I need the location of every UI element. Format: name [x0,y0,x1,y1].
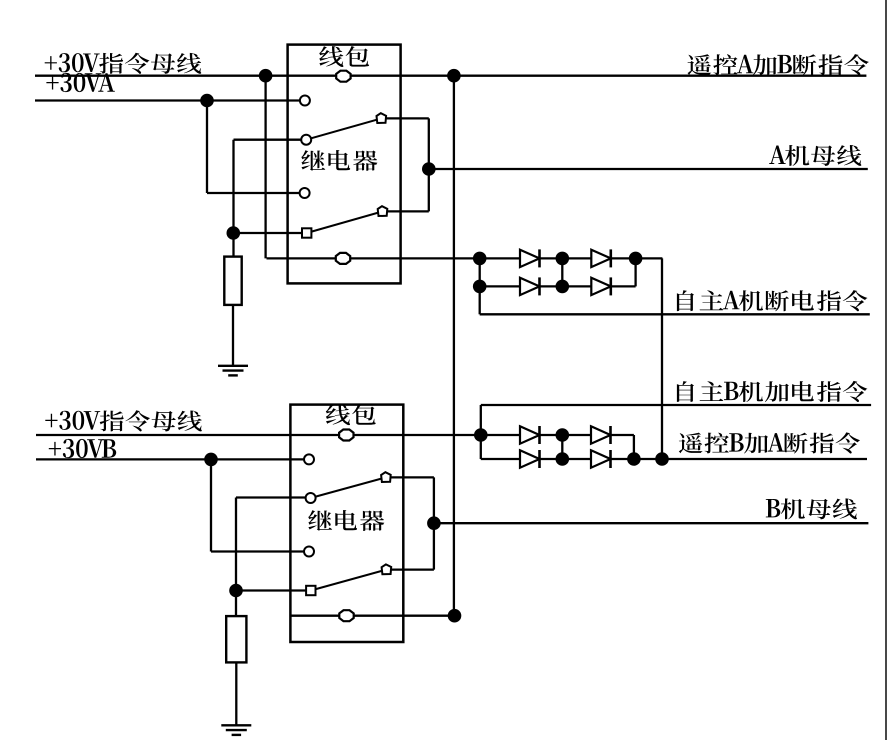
terminal K2 pin 4 (common b) [306,586,315,595]
wire diode block B left tie [480,405,482,459]
node: diode block B row1 left [474,428,488,442]
net label +30V指令母线 (bus B, lower left) [45,410,202,431]
net label 遥控B加A断指令 [679,432,860,453]
wire diode block B bottom row / net 遥控B加A断指令 [481,458,867,460]
net label 自主A机断电指令 [677,290,867,311]
wire from terminal-2 branch down through node to resistor R2 [235,498,237,617]
diode D7 [520,450,540,467]
wire node to relay A terminal 4 [234,232,307,234]
wire +30VB feed to relay B terminal 1 [36,458,309,460]
part label 继电器 (K1) [301,150,377,171]
terminal K1 pin 3 [300,188,310,198]
part label 线包 (K1 coil) [319,46,369,67]
wire long vertical from bus A node down to relay B coil return [453,76,455,616]
wire from relay B contact 2 to B-bus junction [386,568,434,570]
wire from bus A node down to relay A coil return [264,76,266,259]
node: +30VB branch [204,453,218,467]
net label +30VB [49,439,116,458]
terminal K2 contact a (NO) [381,472,391,482]
diode D4 [591,278,611,295]
terminal K2 pin 3 [304,547,314,557]
node A (A机母线 pick-off) [422,162,436,176]
resistor R2 [226,616,246,662]
wire diode block A middle tie [561,258,563,286]
wire resistor R2 to ground [235,662,237,725]
node: diode block A row2 left [473,280,487,294]
node: K1 pin4 / R1 [227,226,241,240]
terminal K1 pin 4 (common b) [302,228,311,237]
wire net 自主A机断电指令 [480,313,870,315]
terminal K1 contact b (NO) [378,206,388,216]
wire diode block A left tie-down [479,258,481,314]
node: diode block A row1 right [629,252,643,266]
ground GND1 [218,365,248,367]
coil terminal K1 top (线包) [336,71,350,82]
node: diode block B row2 middle [556,452,570,466]
node: +30VA branch [200,94,214,108]
wire resistor R1 to ground [232,305,234,366]
wire diode block A right tie [634,258,636,286]
wire relay A coil bottom row / diode block A top row [267,257,663,259]
switch blade K1 contact a [306,118,381,139]
wire net +30V command bus A (top), runs to 遥控A加B断指令 [35,75,866,77]
node: K2 coil return [448,609,462,623]
terminal K2 pin 1 [304,454,314,464]
part label 线包 (K2 coil) [326,404,376,425]
node: diode block B row2 right [627,452,641,466]
net label +30V指令母线 (bus A, top left) [45,53,202,74]
wire into relay B terminal 3 [211,550,309,552]
wire joining relay A contacts [428,118,430,211]
switch blade K2 contact b [311,570,387,591]
diode D3 [520,278,540,295]
ground GND2 [221,724,251,726]
terminal K2 pin 2 (common a) [306,493,316,503]
coil terminal K2 top (线包) [339,430,353,441]
wire from relay B contact 1 to B-bus junction [386,476,434,478]
node B (B机母线 pick-off) [427,516,441,530]
wire into relay A terminal 2 [234,139,307,141]
wire diode block A bottom row [480,285,636,287]
switch blade K1 contact b [307,211,383,233]
node: K2 pin4 / R2 [229,584,243,598]
net label 自主B机加电指令 [677,381,867,402]
node: block A output joins 遥控B row [655,452,669,466]
wire diode block B right tie [633,435,635,459]
page right border [885,0,887,740]
wire from +30VB node down to relay B terminal 3 [210,459,212,551]
wire from relay A contact 1 to A-bus junction [381,117,429,119]
node: diode block B row1 middle [556,428,570,442]
wire from +30VA node down to relay A terminal 3 [206,101,208,194]
wire +30VA feed to relay A terminal 1 [35,99,305,101]
terminal K1 pin 1 [300,96,310,106]
wire from relay A contact 2 to A-bus junction [383,210,429,212]
terminal K2 contact b (NO) [382,564,392,574]
relay K1 outline (top relay 继电器) [288,45,401,284]
terminal K1 pin 2 (common a) [301,135,311,145]
wire net 自主B机加电指令 [481,404,871,406]
coil terminal K2 bottom [339,610,353,621]
net label A机母线 [769,145,861,166]
diode D5 [520,426,540,443]
node: bus A to K2 coil return drop [447,69,461,83]
wire into relay B terminal 2 [236,496,311,498]
node: diode block A row1 left [473,252,487,266]
switch blade K2 contact a [311,477,386,498]
wire net +30V command bus B / diode block B top row [36,434,634,436]
diode D2 [591,250,611,267]
diode D8 [591,450,611,467]
wire into relay A terminal 3 [207,192,305,194]
wire net A机母线 (A machine bus) [429,168,868,170]
resistor R1 [224,257,241,305]
terminal K1 contact a (NO) [377,113,387,123]
diode D1 [520,250,540,267]
wire diode block B middle tie [561,435,563,459]
net label +30VA [46,73,114,92]
net label 遥控A加B断指令 [688,54,869,75]
net label B机母线 [766,498,857,519]
node: diode block A row1 middle [556,252,570,266]
wire node to relay B terminal 4 [236,589,311,591]
coil terminal K1 bottom [336,253,350,264]
wire relay B coil bottom row [290,615,454,617]
node: bus A to K1 coil return [259,69,273,83]
wire joining relay B contacts [433,477,435,569]
relay K2 outline (bottom relay 继电器) [290,405,403,642]
wire from diode block A output down to diode block B output row [661,258,663,459]
diode D6 [591,426,611,443]
wire net B机母线 (B machine bus) [434,522,869,524]
node: diode block A row2 middle [556,280,570,294]
wire from terminal-2 branch down through node to resistor R1 [232,140,234,257]
part label 继电器 (K2) [308,510,384,531]
